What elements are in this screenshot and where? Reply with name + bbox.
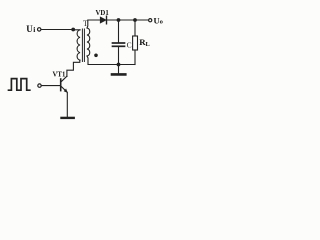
resistor RL top lead [134,20,136,36]
wire secondary top to diode [87,20,100,28]
wire diode to output [107,19,148,21]
label T [83,19,88,28]
secondary polarity dot [94,54,98,58]
transistor VT1 emitter with arrow [61,86,66,91]
transistor VT1 base bar [60,79,62,91]
capacitor C bottom lead [118,47,120,65]
capacitor C top lead [118,20,120,42]
pulse source symbol [9,79,30,91]
junction node (RL branch) [133,18,137,22]
label C [127,40,132,49]
wire dot to primary top [75,29,80,31]
svg-text:C: C [127,40,132,49]
transformer T secondary winding [87,28,90,56]
wire Ui to primary dot [41,29,71,31]
label RL [139,37,150,48]
transformer core [81,29,83,62]
svg-text:VT1: VT1 [53,72,66,79]
output terminal Uo [149,19,152,22]
base input terminal [38,84,41,87]
diode VD1 [100,17,106,23]
svg-text:VD1: VD1 [96,10,110,17]
ground (emitter) [62,117,74,119]
label Uo [154,16,163,26]
transistor VT1 collector [61,76,67,82]
transformer T primary winding [77,30,80,60]
wire secondary bottom to rail [87,56,135,65]
label Ui [26,24,35,34]
label VT1 [53,72,66,79]
capacitor C [113,42,125,44]
wire terminal to base [42,85,61,87]
junction node (cap branch) [117,18,121,22]
input terminal Ui [38,28,41,31]
ground stub (output side) [118,65,120,74]
label VD1 [96,10,110,17]
resistor RL [133,36,138,50]
primary polarity dot [71,28,75,32]
resistor RL bottom lead [134,50,136,65]
wire emitter down [66,92,68,117]
junction node on bottom rail [117,63,121,67]
ground (output side) [112,73,125,76]
svg-text:Ui: Ui [26,24,35,34]
wire collector to primary bottom [67,60,80,76]
